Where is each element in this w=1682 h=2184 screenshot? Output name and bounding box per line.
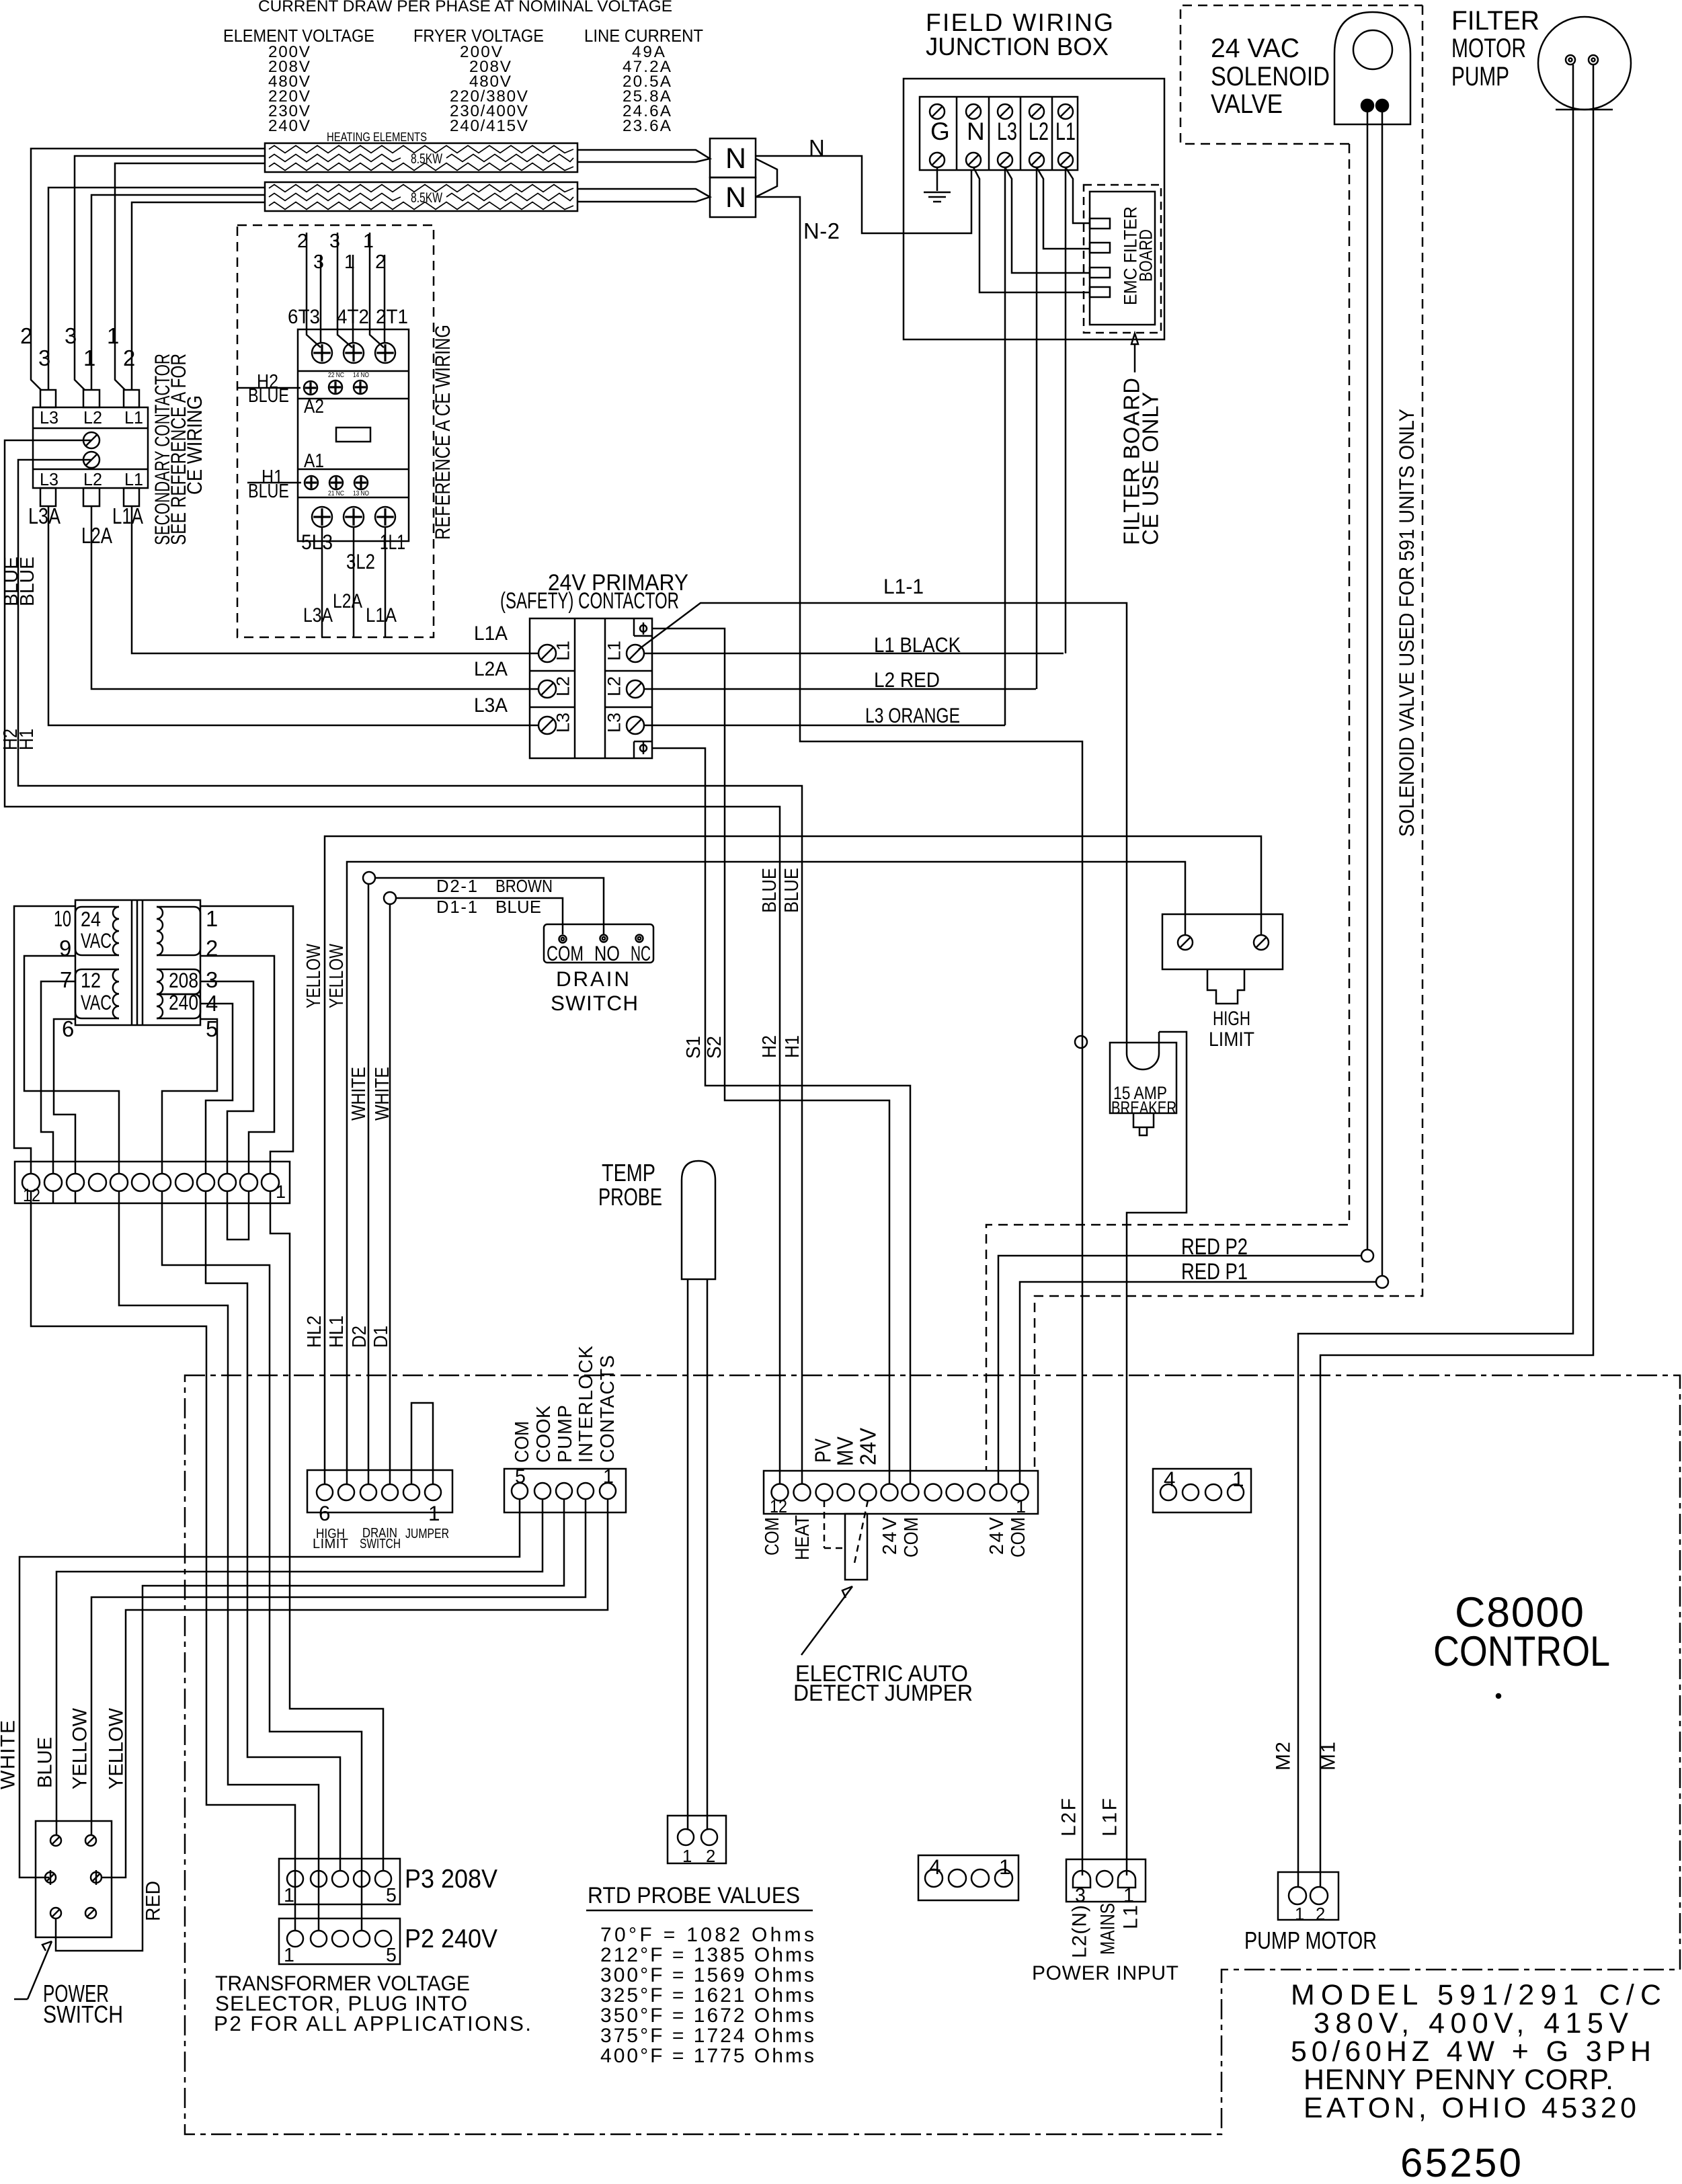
svg-text:JUMPER: JUMPER xyxy=(405,1527,449,1541)
svg-text:L3A: L3A xyxy=(28,503,61,528)
secondary contactor xyxy=(33,407,148,488)
svg-text:YELLOW: YELLOW xyxy=(106,1707,128,1789)
svg-text:NC: NC xyxy=(631,942,651,965)
wire TB1-11 stub xyxy=(52,1191,54,1203)
wire L2 terminal to EMC pin2 and down xyxy=(1037,167,1090,249)
svg-text:2: 2 xyxy=(20,323,32,348)
wire xfmr pin4 to terminal 4 xyxy=(200,1004,233,1174)
svg-text:LIMIT: LIMIT xyxy=(313,1537,348,1551)
temp probe connector J-probe xyxy=(668,1816,726,1863)
svg-text:TEMP: TEMP xyxy=(602,1160,655,1186)
junction box terminal strip G N L3 L2 L1 xyxy=(920,97,1078,170)
svg-text:1: 1 xyxy=(284,1885,294,1906)
svg-text:D1-1: D1-1 xyxy=(436,898,477,917)
svg-text:1: 1 xyxy=(1295,1905,1304,1924)
wire TB1-1 to P3 pin5 xyxy=(270,1191,383,1871)
svg-text:13 NO: 13 NO xyxy=(353,490,369,497)
svg-text:6: 6 xyxy=(319,1502,330,1525)
svg-text:MAINS: MAINS xyxy=(1097,1903,1119,1955)
svg-text:L2A: L2A xyxy=(81,523,112,548)
svg-text:14 NO: 14 NO xyxy=(353,372,369,379)
node junction on N-2 wire xyxy=(1075,1036,1087,1048)
svg-text:BLUE: BLUE xyxy=(495,898,541,917)
svg-text:8.5KW: 8.5KW xyxy=(411,151,443,167)
svg-text:D2-1: D2-1 xyxy=(436,877,477,896)
svg-text:N-2: N-2 xyxy=(803,218,840,243)
wire temp probe to connector 2 xyxy=(707,1279,709,1829)
svg-text:BREAKER: BREAKER xyxy=(1111,1097,1176,1118)
svg-text:HEATING ELEMENTS: HEATING ELEMENTS xyxy=(327,130,427,144)
CE contactor top screws 6T3 4T2 2T1 xyxy=(312,343,332,363)
svg-text:240/415V: 240/415V xyxy=(450,117,528,135)
svg-text:5: 5 xyxy=(206,1016,218,1041)
power input connector J1 mains xyxy=(1066,1859,1146,1902)
arrow to power switch xyxy=(14,1998,28,2000)
svg-text:REFERENCE A CE WIRING: REFERENCE A CE WIRING xyxy=(431,325,454,540)
svg-text:PV: PV xyxy=(811,1439,836,1463)
svg-text:L3: L3 xyxy=(997,117,1017,145)
wire TB1-8 to P2 pin2 xyxy=(119,1191,319,1931)
transformer secondary 240 winding xyxy=(157,994,200,1018)
svg-text:L1: L1 xyxy=(124,471,143,489)
svg-text:SWITCH: SWITCH xyxy=(43,2001,123,2028)
wire J4 pin3 RED to power switch xyxy=(56,1499,564,1951)
svg-text:300°F = 1569 Ohms: 300°F = 1569 Ohms xyxy=(600,1964,814,1986)
power switch S1 xyxy=(36,1821,112,1937)
svg-text:24: 24 xyxy=(81,907,101,931)
svg-text:PUMP MOTOR: PUMP MOTOR xyxy=(1244,1927,1377,1954)
svg-text:COM: COM xyxy=(547,942,584,965)
svg-text:325°F = 1621 Ohms: 325°F = 1621 Ohms xyxy=(600,1984,814,2007)
connector J6 4-pin xyxy=(918,1855,1018,1900)
svg-text:9: 9 xyxy=(59,936,71,961)
svg-text:G: G xyxy=(930,117,950,145)
svg-text:FILTER: FILTER xyxy=(1451,6,1539,36)
wire solenoid to RED P2 xyxy=(1367,112,1369,1250)
heating element E2 8.5KW xyxy=(265,182,577,211)
svg-text:M2: M2 xyxy=(1273,1742,1295,1771)
svg-text:23.6A: 23.6A xyxy=(623,117,672,135)
connector P2 240V xyxy=(279,1918,400,1964)
connector J4 5-pin interlock contacts xyxy=(504,1469,626,1512)
svg-text:8.5KW: 8.5KW xyxy=(411,190,443,206)
connector J5 4-pin xyxy=(1153,1469,1251,1512)
svg-text:L1: L1 xyxy=(124,409,143,428)
svg-text:L2 RED: L2 RED xyxy=(874,668,940,692)
svg-text:L1-1: L1-1 xyxy=(883,575,924,598)
svg-text:NO: NO xyxy=(594,942,620,965)
svg-text:L1A: L1A xyxy=(112,503,143,528)
svg-text:1: 1 xyxy=(1232,1467,1244,1491)
svg-text:A1: A1 xyxy=(304,450,324,472)
wire TB1-12 to P2 pin1 xyxy=(31,1191,295,1931)
wire RED P1 to control pin1 xyxy=(1376,1276,1388,1288)
svg-text:3: 3 xyxy=(38,346,50,370)
svg-text:3: 3 xyxy=(65,323,77,348)
svg-text:HEAT: HEAT xyxy=(792,1515,813,1560)
wire xfmr pin7 to terminal 11 xyxy=(41,981,75,1174)
wire xfmr pin6 to terminal 10 xyxy=(54,1019,75,1174)
svg-text:VAC: VAC xyxy=(81,991,112,1014)
svg-text:5L3: 5L3 xyxy=(301,530,333,554)
svg-text:4: 4 xyxy=(1164,1467,1175,1491)
svg-text:COM: COM xyxy=(762,1517,783,1555)
svg-text:BOARD: BOARD xyxy=(1135,229,1156,282)
svg-text:HENNY PENNY CORP.: HENNY PENNY CORP. xyxy=(1304,2064,1613,2096)
svg-text:L3: L3 xyxy=(40,471,58,489)
wire xfmr pin5 to terminal 6 xyxy=(162,1019,217,1174)
solenoid valve dashed drop lines xyxy=(986,144,1349,1471)
svg-text:2T1: 2T1 xyxy=(376,306,408,328)
svg-text:2: 2 xyxy=(206,936,218,961)
svg-text:2: 2 xyxy=(123,346,135,370)
svg-text:PROBE: PROBE xyxy=(598,1184,662,1211)
wire L1A from secondary contactor to primary contactor xyxy=(132,506,539,653)
svg-text:2: 2 xyxy=(706,1847,715,1866)
svg-text:VALVE: VALVE xyxy=(1211,89,1283,119)
wire H1 from secondary contactor to control pin 11 xyxy=(18,460,802,1484)
svg-text:L3A: L3A xyxy=(474,694,508,717)
svg-text:4: 4 xyxy=(929,1855,940,1879)
CE contactor aux screws 22NC 14NO xyxy=(304,381,317,395)
svg-text:H1: H1 xyxy=(16,729,38,750)
svg-text:YELLOW: YELLOW xyxy=(326,944,348,1008)
svg-text:3: 3 xyxy=(206,967,218,992)
drain switch S2 xyxy=(544,924,653,963)
svg-text:N: N xyxy=(725,143,746,175)
svg-text:HL2: HL2 xyxy=(304,1316,325,1348)
svg-text:1: 1 xyxy=(206,906,218,931)
wire S1 coil to control pin 5 xyxy=(652,748,910,1484)
svg-text:COM: COM xyxy=(901,1517,922,1558)
transformer T1 xyxy=(75,900,200,1025)
svg-text:VAC: VAC xyxy=(81,929,112,953)
svg-text:N: N xyxy=(967,117,985,145)
svg-text:JUNCTION BOX: JUNCTION BOX xyxy=(926,32,1109,60)
connector J3 6-pin high-limit drain jumper xyxy=(307,1470,452,1512)
arrow to EMC board xyxy=(1134,344,1136,372)
svg-text:S2: S2 xyxy=(704,1036,725,1059)
svg-text:RED: RED xyxy=(143,1881,165,1921)
svg-text:400°F = 1775 Ohms: 400°F = 1775 Ohms xyxy=(600,2045,814,2067)
svg-text:1: 1 xyxy=(1016,1496,1026,1516)
svg-text:H2: H2 xyxy=(759,1035,780,1058)
wire: element E1 leads to N terminal (arrow) xyxy=(577,150,710,162)
svg-text:1: 1 xyxy=(999,1855,1010,1879)
svg-text:SOLENOID: SOLENOID xyxy=(1211,62,1330,91)
svg-text:SWITCH: SWITCH xyxy=(551,992,638,1015)
svg-text:3: 3 xyxy=(313,251,324,273)
svg-text:RED P1: RED P1 xyxy=(1181,1259,1248,1285)
svg-text:24V: 24V xyxy=(879,1517,901,1555)
svg-text:CE USE ONLY: CE USE ONLY xyxy=(1138,392,1163,545)
wire D1 drain to connector pin3 xyxy=(389,904,391,1484)
primary contactor left screws L1 L2 L3 xyxy=(538,645,556,662)
svg-text:CE WIRING: CE WIRING xyxy=(183,395,206,495)
svg-text:MV: MV xyxy=(833,1437,858,1466)
svg-text:L3: L3 xyxy=(604,713,625,733)
svg-text:CONTROL: CONTROL xyxy=(1433,1628,1610,1675)
svg-text:1: 1 xyxy=(284,1945,294,1966)
wire xfmr pin9 to terminal 8 xyxy=(24,956,119,1174)
svg-text:N: N xyxy=(725,181,746,214)
svg-text:375°F = 1724 Ohms: 375°F = 1724 Ohms xyxy=(600,2025,814,2047)
svg-text:A2: A2 xyxy=(304,396,324,417)
svg-text:YELLOW: YELLOW xyxy=(303,944,325,1008)
CE contactor bottom screws 5L3 3L2 1L1 xyxy=(312,507,332,527)
svg-text:212°F = 1385 Ohms: 212°F = 1385 Ohms xyxy=(600,1944,814,1966)
svg-text:L1: L1 xyxy=(553,641,573,661)
svg-text:3: 3 xyxy=(1075,1885,1086,1906)
svg-text:1: 1 xyxy=(682,1847,692,1866)
transformer secondary 208 winding xyxy=(157,969,200,994)
svg-text:2: 2 xyxy=(1316,1905,1325,1924)
terminal strip TB1 12 positions xyxy=(15,1162,290,1203)
arrow to jumper xyxy=(801,1586,852,1655)
primary contactor coil terminals xyxy=(640,625,647,632)
svg-text:P3 208V: P3 208V xyxy=(405,1865,497,1894)
wire TB1-4 to P3 pin3 xyxy=(206,1191,340,1871)
EMC filter board xyxy=(1084,185,1161,333)
CE reference contactor dashed enclosure xyxy=(237,225,434,637)
svg-text:COM: COM xyxy=(1008,1517,1029,1558)
wire S2 coil to control pin 6 xyxy=(652,629,889,1484)
svg-text:L1A: L1A xyxy=(474,622,508,645)
wire xfmr pin2 to terminal 2 xyxy=(200,956,274,1174)
svg-text:COM: COM xyxy=(512,1421,533,1463)
svg-text:2: 2 xyxy=(375,251,386,273)
wire L2A xyxy=(91,506,539,689)
wire pump M1 to pump motor pin2 xyxy=(1320,65,1593,1887)
svg-text:12: 12 xyxy=(81,969,101,992)
CE contactor coil box xyxy=(336,428,370,442)
svg-text:P2 240V: P2 240V xyxy=(405,1925,497,1953)
wire: N-2 down to breaker area and power input xyxy=(756,197,1082,1875)
svg-text:21 NC: 21 NC xyxy=(328,490,344,497)
connector J2 12-pin control xyxy=(764,1471,1038,1514)
svg-text:L2: L2 xyxy=(553,676,573,696)
svg-text:7: 7 xyxy=(60,967,72,992)
transformer primary 24VAC winding xyxy=(75,907,119,955)
svg-text:5: 5 xyxy=(515,1466,526,1488)
wire: element E2 leads to N terminal (arrow) xyxy=(577,189,710,202)
wire L1 terminal to EMC pin1 and down xyxy=(1066,167,1090,223)
wire D2 drain to connector pin4 xyxy=(368,884,370,1484)
svg-text:1: 1 xyxy=(1123,1885,1134,1906)
svg-text:2: 2 xyxy=(297,231,308,252)
svg-text:1: 1 xyxy=(363,231,374,252)
svg-text:RED P2: RED P2 xyxy=(1181,1234,1248,1260)
svg-text:240: 240 xyxy=(169,991,198,1014)
CE contactor body xyxy=(298,329,409,541)
wire jumper loop pins 1-2 xyxy=(411,1403,433,1484)
svg-text:L2: L2 xyxy=(604,676,625,696)
svg-text:CONTACTS: CONTACTS xyxy=(597,1355,618,1463)
wire L3A xyxy=(48,506,539,725)
svg-text:EATON, OHIO 45320: EATON, OHIO 45320 xyxy=(1304,2092,1636,2124)
connector P3 208V xyxy=(279,1859,400,1904)
wire TB1-3 TB1-2 jumper xyxy=(227,1191,249,1240)
wire L3 terminal to EMC pin3 and down xyxy=(1005,167,1090,273)
wire H2 from secondary contactor to control pin 12 xyxy=(5,440,780,1484)
svg-text:L3: L3 xyxy=(40,409,58,428)
wire CE stubs top xyxy=(307,233,321,348)
svg-text:CURRENT DRAW PER PHASE AT NOMI: CURRENT DRAW PER PHASE AT NOMINAL VOLTAG… xyxy=(258,0,672,15)
svg-text:BROWN: BROWN xyxy=(495,877,553,896)
svg-text:12: 12 xyxy=(770,1496,787,1516)
svg-text:65250: 65250 xyxy=(1400,2140,1521,2184)
svg-text:1L1: 1L1 xyxy=(380,530,405,554)
svg-text:LIMIT: LIMIT xyxy=(1209,1028,1254,1051)
svg-text:L2: L2 xyxy=(83,409,102,428)
svg-text:P2 FOR ALL APPLICATIONS.: P2 FOR ALL APPLICATIONS. xyxy=(214,2012,531,2035)
svg-text:M1: M1 xyxy=(1318,1742,1340,1771)
svg-text:SOLENOID VALVE USED FOR 591 UN: SOLENOID VALVE USED FOR 591 UNITS ONLY xyxy=(1395,409,1418,837)
svg-text:350°F = 1672 Ohms: 350°F = 1672 Ohms xyxy=(600,2005,814,2027)
transformer primary 12VAC winding xyxy=(75,969,119,1018)
svg-text:5: 5 xyxy=(386,1945,397,1966)
svg-text:L1: L1 xyxy=(604,641,625,661)
wire xfmr pin3 to terminal 3 xyxy=(200,981,253,1174)
wire breaker to power input L1F xyxy=(1127,1032,1187,1875)
primary contactor right screws L1 L2 L3 xyxy=(627,645,644,662)
svg-text:22 NC: 22 NC xyxy=(328,372,344,379)
svg-text:L2: L2 xyxy=(1029,117,1049,145)
wire J4 pin1 WHITE to power switch xyxy=(19,1499,520,1877)
svg-text:1: 1 xyxy=(276,1181,286,1202)
svg-text:DRAIN: DRAIN xyxy=(556,967,629,991)
wire xfmr pin10 to terminal 12 xyxy=(14,906,75,1174)
svg-text:S1: S1 xyxy=(683,1036,705,1059)
wire D2-1 BROWN to drain NO xyxy=(363,872,375,884)
svg-text:MOTOR: MOTOR xyxy=(1451,34,1526,63)
svg-text:HL1: HL1 xyxy=(326,1316,348,1348)
svg-text:BLUE: BLUE xyxy=(17,557,38,606)
svg-text:L2A: L2A xyxy=(333,590,362,612)
svg-text:HIGH: HIGH xyxy=(1213,1008,1250,1030)
svg-text:BLUE: BLUE xyxy=(759,868,780,913)
svg-text:PUMP: PUMP xyxy=(1451,62,1509,91)
svg-text:L1: L1 xyxy=(1055,117,1076,145)
svg-text:1: 1 xyxy=(107,323,119,348)
circuit breaker CB1 15 amp xyxy=(1110,1043,1176,1113)
svg-text:L3 ORANGE: L3 ORANGE xyxy=(865,704,960,727)
svg-text:L2F: L2F xyxy=(1058,1798,1080,1836)
svg-text:BLUE: BLUE xyxy=(781,868,803,913)
wire HL1 YELLOW connector pin5 to high limit left xyxy=(347,862,1185,1484)
svg-text:240V: 240V xyxy=(268,117,311,135)
svg-text:PUMP: PUMP xyxy=(555,1405,576,1463)
wire temp probe to connector 1 xyxy=(687,1279,689,1829)
wire J4 pin2 BLUE to power switch xyxy=(56,1499,543,1836)
svg-text:6T3: 6T3 xyxy=(288,306,320,328)
svg-text:L2: L2 xyxy=(83,471,102,489)
wire L1-1 from contactor through breaker xyxy=(639,603,1127,1053)
wire pump M2 to pump motor pin1 xyxy=(1298,65,1573,1887)
svg-text:INTERLOCK: INTERLOCK xyxy=(575,1346,597,1463)
svg-text:L3: L3 xyxy=(553,713,573,733)
wire HL2 YELLOW connector pin6 to high limit right xyxy=(325,836,1261,1484)
svg-text:L1F: L1F xyxy=(1099,1798,1121,1836)
svg-text:50/60HZ 4W + G 3PH: 50/60HZ 4W + G 3PH xyxy=(1291,2035,1651,2068)
wire N terminal to EMC pin4 xyxy=(973,167,1090,292)
wire xfmr pin1 to terminal 1 xyxy=(200,906,293,1174)
wire D1-1 BLUE to drain COM xyxy=(384,892,396,904)
svg-text:1: 1 xyxy=(344,251,355,273)
svg-text:SWITCH: SWITCH xyxy=(360,1537,401,1551)
svg-text:1: 1 xyxy=(83,346,95,370)
wire J4 pin4 YELLOW to power switch xyxy=(91,1499,586,1836)
ground symbol xyxy=(936,167,938,191)
svg-text:1: 1 xyxy=(603,1466,614,1488)
wire: element E1 leads to secondary contactor xyxy=(31,149,265,390)
wire: element E2 leads to secondary contactor xyxy=(48,188,265,390)
svg-text:BLUE: BLUE xyxy=(248,481,289,502)
wire CE stubs bottom L3A L2A L1A xyxy=(321,527,323,637)
transformer secondary winding 1-2 xyxy=(157,907,200,955)
svg-text:1: 1 xyxy=(428,1502,440,1525)
C8000 control board boundary dash-dot xyxy=(185,1375,1680,2134)
solenoid valve dashed enclosure xyxy=(1180,5,1423,144)
wire L1 BLACK xyxy=(644,653,1064,655)
svg-text:WHITE: WHITE xyxy=(372,1067,393,1121)
node N terminal block xyxy=(710,138,756,177)
wire L3 ORANGE xyxy=(644,725,1005,727)
wire L2 RED xyxy=(644,688,1036,690)
svg-text:L2(N): L2(N) xyxy=(1069,1905,1091,1958)
svg-text:COOK: COOK xyxy=(533,1406,555,1463)
svg-text:WHITE: WHITE xyxy=(0,1720,19,1789)
svg-text:RTD PROBE VALUES: RTD PROBE VALUES xyxy=(588,1883,800,1908)
svg-text:3L2: 3L2 xyxy=(346,550,375,573)
svg-text:H1: H1 xyxy=(782,1035,803,1058)
svg-text:POWER INPUT: POWER INPUT xyxy=(1032,1962,1178,1984)
svg-text:3: 3 xyxy=(329,231,340,252)
secondary contactor coil screws xyxy=(83,432,99,448)
svg-text:D1: D1 xyxy=(370,1326,392,1348)
svg-text:YELLOW: YELLOW xyxy=(69,1707,91,1789)
svg-text:(SAFETY) CONTACTOR: (SAFETY) CONTACTOR xyxy=(500,588,679,614)
wire solenoid to RED P1 xyxy=(1381,112,1384,1276)
electric auto detect jumper xyxy=(824,1500,826,1548)
svg-text:WHITE: WHITE xyxy=(348,1067,370,1121)
svg-text:5: 5 xyxy=(386,1885,397,1906)
svg-text:L2A: L2A xyxy=(474,658,508,680)
svg-text:10: 10 xyxy=(54,906,71,931)
wire: N to junction box xyxy=(756,156,971,233)
svg-text:BLUE: BLUE xyxy=(34,1737,56,1788)
high limit switch S3 xyxy=(1162,914,1283,969)
svg-text:L3A: L3A xyxy=(303,604,333,626)
wire J4 pin5 YELLOW to power switch xyxy=(101,1499,608,1877)
svg-text:L1A: L1A xyxy=(366,604,397,626)
wire RED P2 to control pin2 xyxy=(1361,1250,1373,1262)
svg-text:6: 6 xyxy=(62,1016,74,1041)
CE contactor aux screws 21NC 13NO xyxy=(305,476,318,489)
svg-text:208: 208 xyxy=(169,969,198,992)
wire TB1-6 to P2 pin4 xyxy=(162,1191,362,1931)
svg-text:24V: 24V xyxy=(986,1517,1008,1555)
svg-text:24V: 24V xyxy=(856,1428,881,1465)
wire TB1-10 stub xyxy=(75,1191,77,1203)
svg-text:24 VAC: 24 VAC xyxy=(1211,34,1299,63)
svg-text:D2: D2 xyxy=(349,1326,370,1348)
svg-text:DETECT JUMPER: DETECT JUMPER xyxy=(793,1681,973,1706)
svg-text:L1 BLACK: L1 BLACK xyxy=(874,633,961,657)
pump motor connector J7 xyxy=(1278,1872,1338,1920)
